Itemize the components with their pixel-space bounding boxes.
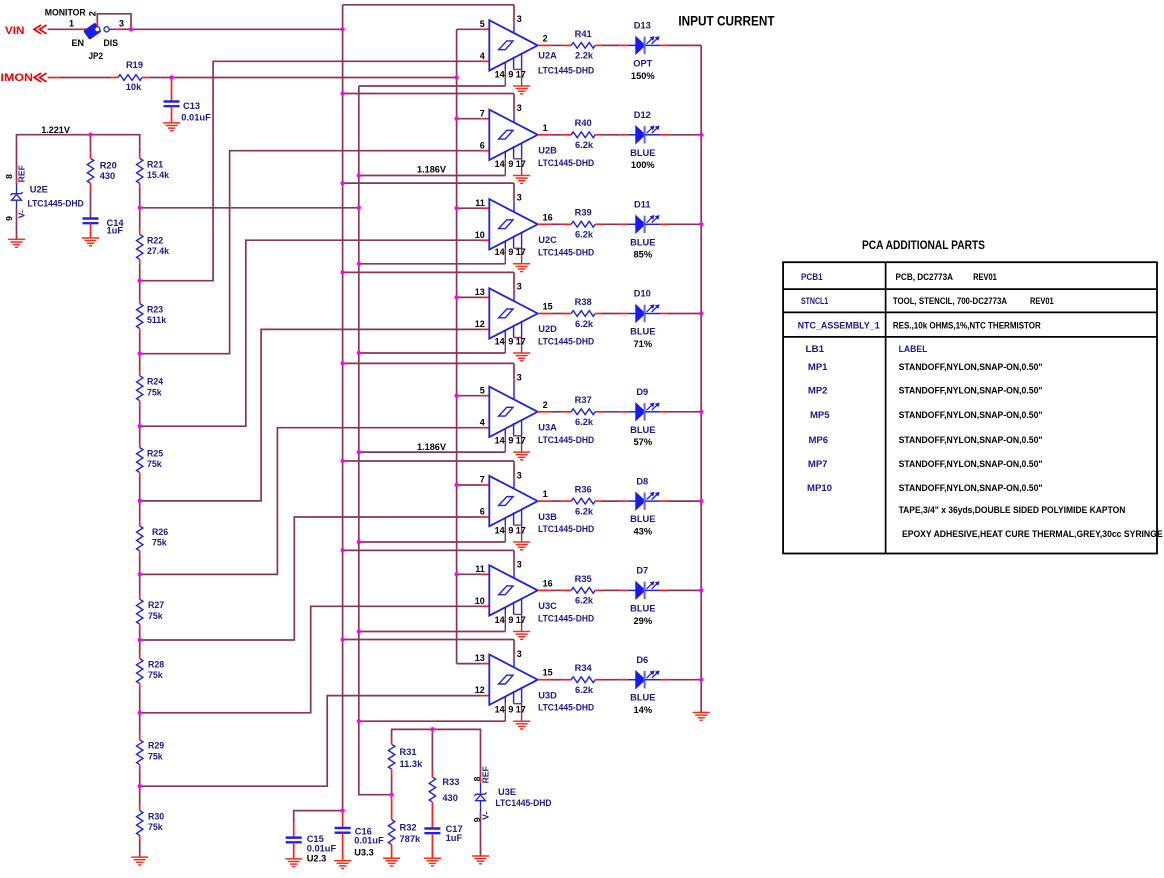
junction +input bus tap xyxy=(455,483,459,487)
resistor R28 75k xyxy=(137,659,165,684)
table PCA ADDITIONAL PARTS xyxy=(783,238,1163,554)
wire ladder above R30 xyxy=(139,786,141,810)
wire pin3 rail U3C xyxy=(343,550,514,569)
wire pin14 U3C to 1.186V bus xyxy=(359,631,506,633)
wire pin14 U2C to 1.186V bus xyxy=(359,263,506,265)
svg-text:14: 14 xyxy=(495,247,505,257)
svg-text:R21: R21 xyxy=(147,159,163,169)
wire ladder above R28 xyxy=(139,640,141,659)
wire -input U3B from ladder tap xyxy=(140,517,490,640)
svg-text:43%: 43% xyxy=(633,527,652,537)
svg-text:9: 9 xyxy=(508,159,513,169)
svg-text:3: 3 xyxy=(517,282,522,292)
junction +input bus IMON tap xyxy=(455,75,459,79)
svg-text:R28: R28 xyxy=(148,660,164,670)
junction ladder tap 8 xyxy=(138,711,142,715)
svg-text:D6: D6 xyxy=(636,655,648,665)
svg-text:2.2k: 2.2k xyxy=(575,51,594,61)
svg-text:13: 13 xyxy=(475,653,485,663)
wire D9 to output bus xyxy=(645,411,701,413)
junction 1.186V bus pin14 tap xyxy=(357,173,361,177)
junction VIN bus rail tap xyxy=(341,361,345,365)
svg-text:REF: REF xyxy=(481,766,491,783)
resistor R21 15.4k xyxy=(137,158,170,183)
junction +input bus tap xyxy=(455,572,459,576)
svg-text:R19: R19 xyxy=(126,60,143,70)
LED D9 xyxy=(630,387,659,447)
resistor R41 2.2k xyxy=(571,29,595,61)
ground C16 xyxy=(334,860,351,862)
svg-text:NTC_ASSEMBLY_1: NTC_ASSEMBLY_1 xyxy=(798,320,880,330)
svg-text:6.2k: 6.2k xyxy=(575,596,594,606)
op-amp comparator U2B LTC1445-DHD xyxy=(480,103,595,176)
wire ladder tap1 to 1.186V bus xyxy=(140,207,359,209)
resistor R32 787k xyxy=(388,795,421,859)
svg-text:1uF: 1uF xyxy=(446,833,463,843)
svg-text:16: 16 xyxy=(543,212,553,222)
svg-text:1: 1 xyxy=(543,489,548,499)
wire D11 to output bus xyxy=(645,223,701,225)
svg-text:REV01: REV01 xyxy=(973,272,997,282)
wire D12 to output bus xyxy=(645,134,701,136)
svg-text:PCB, DC2773A: PCB, DC2773A xyxy=(896,272,954,282)
junction ladder tap 3 xyxy=(138,352,142,356)
svg-text:V-: V- xyxy=(481,812,491,820)
wire R19 to C13 node xyxy=(142,77,172,79)
junction 1.186V bus tap1 xyxy=(357,206,361,210)
junction VIN bus rail tap xyxy=(341,91,345,95)
svg-text:TAPE,3/4" x 36yds,DOUBLE SIDED: TAPE,3/4" x 36yds,DOUBLE SIDED POLYIMIDE… xyxy=(899,505,1126,515)
svg-text:R33: R33 xyxy=(442,777,459,787)
resistor R40 6.2k xyxy=(571,118,595,150)
svg-text:2: 2 xyxy=(543,33,548,43)
wire ladder above R25 xyxy=(139,426,141,447)
wire +input bus vertical xyxy=(456,29,458,663)
svg-text:3: 3 xyxy=(517,560,522,570)
wire R33 to C17 xyxy=(431,802,433,828)
svg-text:17: 17 xyxy=(516,436,526,446)
svg-text:V-: V- xyxy=(17,210,27,218)
svg-text:R25: R25 xyxy=(147,449,163,459)
wire -input U2C from ladder tap xyxy=(140,240,490,426)
svg-text:17: 17 xyxy=(516,336,526,346)
wire IMON node to +input bus xyxy=(172,77,457,79)
ground U3C pins 9/17 xyxy=(513,631,530,633)
svg-text:75k: 75k xyxy=(147,387,162,397)
svg-text:STANDOFF,NYLON,SNAP-ON,0.50": STANDOFF,NYLON,SNAP-ON,0.50" xyxy=(899,386,1043,396)
resistor R34 6.2k xyxy=(571,663,595,695)
svg-text:R34: R34 xyxy=(575,663,593,673)
svg-text:14%: 14% xyxy=(633,705,652,715)
svg-text:BLUE: BLUE xyxy=(630,693,655,703)
svg-text:R20: R20 xyxy=(100,160,117,170)
svg-text:4: 4 xyxy=(480,51,485,61)
junction 1.186V bus pin14 tap xyxy=(357,629,361,633)
wire output U3C to R35 xyxy=(552,589,572,591)
svg-text:71%: 71% xyxy=(633,339,652,349)
wire D10 to output bus xyxy=(645,313,701,315)
capacitor C16 0.01uF xyxy=(335,812,384,861)
resistor R39 6.2k xyxy=(571,208,595,240)
svg-text:MP5: MP5 xyxy=(810,410,830,420)
svg-text:PCB1: PCB1 xyxy=(801,272,823,282)
svg-text:15: 15 xyxy=(543,668,553,678)
wire pin14 U2A to 1.186V bus xyxy=(359,85,506,87)
LED D10 xyxy=(630,289,659,349)
svg-text:1: 1 xyxy=(543,123,548,133)
wire +input U3B xyxy=(457,484,490,486)
svg-text:MONITOR: MONITOR xyxy=(45,8,86,18)
resistor R30 75k xyxy=(137,811,165,836)
wire ladder above R22 xyxy=(139,208,141,235)
svg-text:D12: D12 xyxy=(634,110,651,120)
ground C13 xyxy=(163,122,180,124)
wire R31 to junction xyxy=(391,769,393,795)
resistor R35 6.2k xyxy=(571,574,595,606)
wire ladder below R30 xyxy=(139,836,141,858)
wire C15 to VIN bus xyxy=(294,811,343,838)
svg-text:14: 14 xyxy=(495,615,505,625)
svg-text:29%: 29% xyxy=(633,616,652,626)
wire IMON to R19 xyxy=(48,77,119,79)
junction R20 tap on 1.221V rail xyxy=(88,133,92,137)
svg-text:4: 4 xyxy=(480,417,485,427)
junction output bus row tap xyxy=(699,133,703,137)
wire JP2 pin2 loop to VIN line xyxy=(97,14,131,29)
wire R38 to D10 xyxy=(595,313,636,315)
junction VIN bus rail tap xyxy=(341,270,345,274)
comparator reference U2E (REF section) xyxy=(4,135,84,240)
svg-text:DIS: DIS xyxy=(104,38,119,48)
svg-text:75k: 75k xyxy=(147,459,162,469)
svg-text:RES.,10k OHMS,1%,NTC THERMISTO: RES.,10k OHMS,1%,NTC THERMISTOR xyxy=(893,320,1041,330)
ground U2D pins 9/17 xyxy=(513,352,530,354)
wire R36 to D8 xyxy=(595,500,636,502)
wire pin14 U3D to 1.186V bus xyxy=(359,720,506,722)
wire pin3 rail U2D xyxy=(343,272,514,291)
svg-text:REF: REF xyxy=(17,165,27,182)
resistor R26 75k xyxy=(137,526,169,551)
svg-text:13: 13 xyxy=(475,287,485,297)
svg-text:STNCL1: STNCL1 xyxy=(801,296,828,306)
svg-text:R38: R38 xyxy=(575,297,592,307)
LED D6 xyxy=(630,655,659,715)
wire +input U2B xyxy=(457,118,490,120)
svg-text:U3D: U3D xyxy=(538,690,557,700)
ground U3A pins 9/17 xyxy=(513,451,530,453)
op-amp comparator U2D LTC1445-DHD xyxy=(475,282,595,353)
wire R41 to D13 xyxy=(595,44,636,46)
svg-text:IMON: IMON xyxy=(1,72,34,84)
wire output U3D to R34 xyxy=(552,679,572,681)
ground U2C pins 9/17 xyxy=(513,263,530,265)
ground output bus xyxy=(693,712,710,714)
wire output U2A to R41 xyxy=(552,44,572,46)
svg-text:14: 14 xyxy=(495,705,505,715)
wire pin3 rail U2B xyxy=(343,94,514,113)
svg-text:8: 8 xyxy=(4,174,14,179)
svg-text:57%: 57% xyxy=(633,437,652,447)
junction 1.186V bus pin14 tap xyxy=(357,719,361,723)
svg-text:1.186V: 1.186V xyxy=(417,442,447,452)
svg-text:75k: 75k xyxy=(148,611,163,621)
svg-text:R40: R40 xyxy=(575,118,592,128)
wire pin14 U3B to 1.186V bus xyxy=(359,541,506,543)
svg-text:1: 1 xyxy=(69,18,74,28)
junction JP2/VIN node xyxy=(129,27,133,31)
wire ladder above R27 xyxy=(139,574,141,599)
svg-text:R27: R27 xyxy=(148,600,164,610)
wire R39 to D11 xyxy=(595,223,636,225)
wire ladder below R23 xyxy=(139,329,141,354)
comparator reference U3E (REF section) xyxy=(472,766,552,856)
svg-text:75k: 75k xyxy=(152,538,167,548)
wire pin3 rail U2C xyxy=(343,183,514,202)
svg-text:0.01uF: 0.01uF xyxy=(307,844,337,854)
svg-text:U2A: U2A xyxy=(538,51,557,61)
svg-text:16: 16 xyxy=(543,578,553,588)
capacitor C13 0.01uF xyxy=(101,78,211,123)
wire output U2B to R40 xyxy=(552,134,572,136)
wire -input U3D from ladder tap xyxy=(140,696,490,787)
svg-text:R22: R22 xyxy=(147,235,163,245)
resistor R33 430 xyxy=(429,729,459,803)
LED D8 xyxy=(630,476,659,536)
junction 1.186V bus pin14 tap xyxy=(357,450,361,454)
svg-text:BLUE: BLUE xyxy=(630,327,655,337)
svg-text:9: 9 xyxy=(508,436,513,446)
svg-text:R26: R26 xyxy=(152,527,168,537)
svg-text:17: 17 xyxy=(516,525,526,535)
op-amp comparator U2C LTC1445-DHD xyxy=(475,192,595,263)
junction output bus row tap xyxy=(699,410,703,414)
svg-text:U3E: U3E xyxy=(498,787,516,797)
op-amp comparator U3C LTC1445-DHD xyxy=(475,560,595,632)
wire ladder below R24 xyxy=(139,401,141,427)
svg-text:100%: 100% xyxy=(631,160,656,170)
ground U2E xyxy=(8,238,25,240)
resistor R22 27.4k xyxy=(137,234,170,259)
svg-text:6: 6 xyxy=(480,140,485,150)
junction output bus row tap xyxy=(699,311,703,315)
junction R33 top tap xyxy=(430,727,434,731)
wire output U2D to R38 xyxy=(552,313,572,315)
wire output U3B to R36 xyxy=(552,500,572,502)
wire ladder above R21 xyxy=(139,146,141,158)
svg-text:0.01uF: 0.01uF xyxy=(354,836,384,846)
svg-text:R35: R35 xyxy=(575,574,592,584)
resistor R31 11.3k xyxy=(388,738,423,769)
jumper JP2 xyxy=(45,8,124,61)
svg-text:BLUE: BLUE xyxy=(630,603,655,613)
svg-text:R29: R29 xyxy=(148,741,164,751)
svg-text:R24: R24 xyxy=(147,377,163,387)
wire -input U2D from ladder tap xyxy=(140,329,490,501)
wire ladder below R26 xyxy=(139,551,141,575)
net label VIN xyxy=(5,25,47,37)
svg-text:U2C: U2C xyxy=(538,235,557,245)
junction VIN bus rail tap xyxy=(341,459,345,463)
svg-text:MP6: MP6 xyxy=(809,435,829,445)
svg-text:STANDOFF,NYLON,SNAP-ON,0.50": STANDOFF,NYLON,SNAP-ON,0.50" xyxy=(899,435,1043,445)
wire ladder above R29 xyxy=(139,713,141,740)
junction 1.186V bus pin14 tap xyxy=(357,540,361,544)
svg-text:2: 2 xyxy=(543,400,548,410)
svg-text:D13: D13 xyxy=(634,21,651,31)
svg-text:D8: D8 xyxy=(636,476,648,486)
svg-text:R23: R23 xyxy=(147,305,163,315)
svg-text:R32: R32 xyxy=(400,822,417,832)
svg-text:D9: D9 xyxy=(636,387,648,397)
junction VIN bus rail tap xyxy=(341,548,345,552)
svg-text:1.186V: 1.186V xyxy=(417,164,447,174)
svg-text:LTC1445-DHD: LTC1445-DHD xyxy=(538,66,594,76)
capacitor C15 0.01uF xyxy=(286,834,337,864)
wire output U2C to R39 xyxy=(552,223,572,225)
wire +input U3D xyxy=(457,663,490,665)
wire +input U2A xyxy=(457,28,490,30)
svg-text:LTC1445-DHD: LTC1445-DHD xyxy=(538,158,594,168)
svg-text:D10: D10 xyxy=(634,289,651,299)
ground U2B pins 9/17 xyxy=(513,175,530,177)
svg-text:U2.3: U2.3 xyxy=(307,853,327,863)
junction output bus row tap xyxy=(699,499,703,503)
svg-text:OPT: OPT xyxy=(633,58,652,68)
svg-text:TOOL, STENCIL, 700-DC2773A: TOOL, STENCIL, 700-DC2773A xyxy=(893,296,1007,306)
svg-text:R36: R36 xyxy=(575,485,592,495)
svg-text:1.221V: 1.221V xyxy=(41,125,70,135)
junction output bus row tap xyxy=(699,588,703,592)
svg-text:7: 7 xyxy=(480,108,485,118)
op-amp comparator U2A LTC1445-DHD xyxy=(480,14,595,86)
svg-text:C13: C13 xyxy=(183,101,200,111)
wire -input U3C from ladder tap xyxy=(140,606,490,713)
svg-text:14: 14 xyxy=(495,159,505,169)
junction +input bus tap xyxy=(455,394,459,398)
resistor R24 75k xyxy=(137,376,164,401)
wire ladder below R25 xyxy=(139,473,141,501)
svg-text:5: 5 xyxy=(480,385,485,395)
svg-text:12: 12 xyxy=(475,319,485,329)
svg-text:STANDOFF,NYLON,SNAP-ON,0.50": STANDOFF,NYLON,SNAP-ON,0.50" xyxy=(899,483,1043,493)
svg-text:LTC1445-DHD: LTC1445-DHD xyxy=(495,798,551,808)
wire -input U2B from ladder tap xyxy=(140,151,490,354)
LED D12 xyxy=(630,110,659,170)
junction ladder tap 7 xyxy=(138,638,142,642)
svg-text:BLUE: BLUE xyxy=(630,514,655,524)
svg-text:MP7: MP7 xyxy=(808,459,828,469)
wire R37 to D9 xyxy=(595,411,636,413)
svg-text:3: 3 xyxy=(517,649,522,659)
svg-text:27.4k: 27.4k xyxy=(147,246,169,256)
wire ladder above R23 xyxy=(139,281,141,304)
LED D11 xyxy=(630,200,659,260)
svg-text:3: 3 xyxy=(517,373,522,383)
svg-text:14: 14 xyxy=(495,525,505,535)
svg-text:U2D: U2D xyxy=(538,324,557,334)
svg-text:17: 17 xyxy=(516,247,526,257)
ground U3B pins 9/17 xyxy=(513,541,530,543)
resistor R19 10k xyxy=(118,60,143,92)
svg-text:EPOXY ADHESIVE,HEAT CURE THERM: EPOXY ADHESIVE,HEAT CURE THERMAL,GREY,30… xyxy=(902,529,1163,539)
wire -input U3A from ladder tap xyxy=(140,428,490,575)
wire R35 to D7 xyxy=(595,589,636,591)
svg-text:2: 2 xyxy=(88,11,98,16)
svg-text:75k: 75k xyxy=(148,822,163,832)
LED D13 xyxy=(631,21,659,81)
wire ladder below R29 xyxy=(139,765,141,787)
svg-text:LABEL: LABEL xyxy=(899,344,928,354)
resistor R37 6.2k xyxy=(571,395,595,427)
svg-text:MP1: MP1 xyxy=(808,362,828,372)
junction ladder tap 9 xyxy=(138,784,142,788)
svg-text:10: 10 xyxy=(475,596,485,606)
wire D8 to output bus xyxy=(645,500,701,502)
wire 1.221V rail xyxy=(17,135,140,179)
svg-text:LTC1445-DHD: LTC1445-DHD xyxy=(538,337,594,347)
svg-text:U3C: U3C xyxy=(538,601,557,611)
svg-text:14: 14 xyxy=(495,69,505,79)
svg-text:LTC1445-DHD: LTC1445-DHD xyxy=(538,703,594,713)
ground U3D pins 9/17 xyxy=(513,720,530,722)
svg-text:85%: 85% xyxy=(633,250,652,260)
ground ladder R30 xyxy=(131,856,148,858)
net label IMON xyxy=(1,72,47,84)
svg-text:LTC1445-DHD: LTC1445-DHD xyxy=(538,247,594,257)
wire pin3 rail U3D xyxy=(343,640,514,659)
svg-text:6.2k: 6.2k xyxy=(575,506,594,516)
svg-text:MP2: MP2 xyxy=(808,386,828,396)
svg-text:150%: 150% xyxy=(631,71,656,81)
junction ladder tap 4 xyxy=(138,424,142,428)
svg-text:LB1: LB1 xyxy=(806,344,825,354)
svg-text:STANDOFF,NYLON,SNAP-ON,0.50": STANDOFF,NYLON,SNAP-ON,0.50" xyxy=(899,362,1043,372)
svg-text:C15: C15 xyxy=(307,834,324,844)
resistor R27 75k xyxy=(137,599,165,624)
svg-text:14: 14 xyxy=(495,336,505,346)
resistor R23 511k xyxy=(137,304,167,329)
wire threshold top rail R31/R33/U3E xyxy=(392,729,481,777)
svg-text:INPUT CURRENT: INPUT CURRENT xyxy=(678,14,775,29)
svg-text:U2E: U2E xyxy=(30,185,48,195)
svg-text:LTC1445-DHD: LTC1445-DHD xyxy=(538,613,594,623)
svg-text:3: 3 xyxy=(517,103,522,113)
svg-text:3: 3 xyxy=(119,18,124,28)
svg-text:3: 3 xyxy=(517,14,522,24)
wire D7 to output bus xyxy=(645,589,701,591)
svg-text:JP2: JP2 xyxy=(89,51,104,61)
svg-text:9: 9 xyxy=(508,336,513,346)
ground C14 xyxy=(82,237,99,239)
svg-text:3: 3 xyxy=(517,470,522,480)
junction ladder tap 2 xyxy=(138,279,142,283)
svg-text:6.2k: 6.2k xyxy=(575,417,594,427)
svg-text:R37: R37 xyxy=(575,395,592,405)
junction 1.186V bus pin14 tap xyxy=(357,351,361,355)
junction ladder tap 6 xyxy=(138,572,142,576)
resistor R20 430 xyxy=(87,135,116,184)
resistor R36 6.2k xyxy=(571,485,595,517)
svg-text:9: 9 xyxy=(508,69,513,79)
svg-text:BLUE: BLUE xyxy=(630,237,655,247)
wire R34 to D6 xyxy=(595,679,636,681)
junction 1.186V bus pin14 tap xyxy=(357,262,361,266)
wire pin14 U2D to 1.186V bus xyxy=(359,352,506,354)
svg-text:STANDOFF,NYLON,SNAP-ON,0.50": STANDOFF,NYLON,SNAP-ON,0.50" xyxy=(899,410,1043,420)
svg-text:U3B: U3B xyxy=(538,512,557,522)
svg-text:BLUE: BLUE xyxy=(630,148,655,158)
junction VIN bus rail tap xyxy=(341,181,345,185)
